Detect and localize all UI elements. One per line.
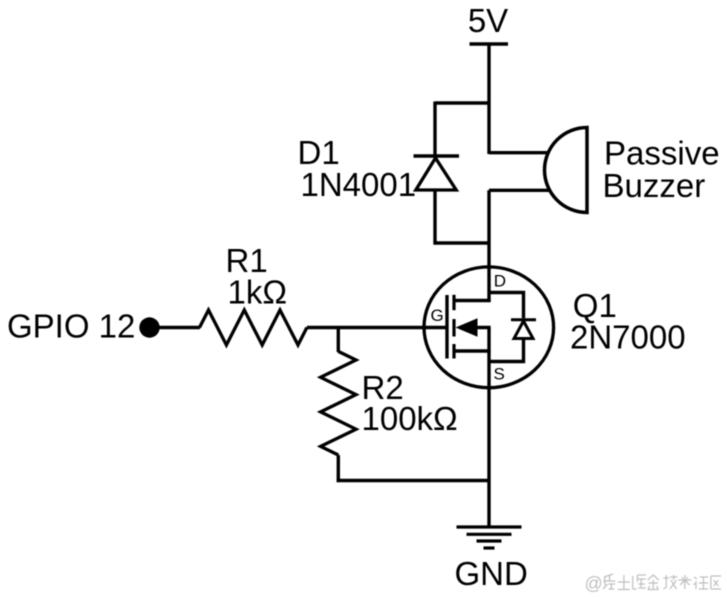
glyph jin <box>648 575 659 590</box>
body diode triangle <box>514 321 533 339</box>
mosfet drain connect <box>454 299 491 302</box>
resistor R2 <box>321 351 356 455</box>
svg-text:S: S <box>494 365 505 384</box>
wire diode branch lower <box>433 190 436 245</box>
mosfet source connect <box>454 349 491 352</box>
glyph ji <box>663 575 677 589</box>
glyph tu <box>618 575 630 590</box>
mosfet arrow wire <box>474 326 491 329</box>
svg-text:5V: 5V <box>468 2 508 39</box>
diode D1 cathode bar <box>414 154 460 158</box>
svg-text:2N7000: 2N7000 <box>570 319 686 356</box>
svg-text:GND: GND <box>455 555 528 592</box>
ground bar 4 <box>484 546 495 549</box>
wire R2 bottom lead <box>337 455 340 482</box>
mosfet channel segment bottom <box>452 344 455 359</box>
mosfet channel segment top <box>452 295 455 310</box>
body diode branch bottom <box>489 339 524 362</box>
wire source down to ground <box>487 328 490 528</box>
wire diode loop top <box>435 101 489 104</box>
svg-text:D: D <box>494 272 506 291</box>
svg-text:G: G <box>431 306 444 325</box>
svg-text:1kΩ: 1kΩ <box>228 274 288 311</box>
glyph jue <box>633 575 646 589</box>
wire buzzer upper lead <box>489 151 549 154</box>
body diode branch top <box>489 293 524 319</box>
ground bar 3 <box>477 539 502 542</box>
glyph qu <box>711 576 721 589</box>
svg-text:GPIO 12: GPIO 12 <box>7 308 135 345</box>
wire R2 to source <box>337 479 489 482</box>
svg-text:Passive: Passive <box>604 135 720 172</box>
mosfet Q1 body circle <box>424 267 554 388</box>
glyph xi <box>603 574 615 589</box>
wire buzzer to drain <box>487 190 490 302</box>
glyph shu <box>678 575 691 589</box>
GPIO terminal dot <box>139 317 159 337</box>
mosfet gate plate <box>445 295 448 359</box>
diode D1 triangle <box>416 158 456 190</box>
wire R2 top lead <box>337 328 340 353</box>
ground bar 2 <box>467 533 512 536</box>
wire GPIO to R1 <box>157 326 200 329</box>
wire R1 to gate <box>307 326 447 329</box>
svg-text:100kΩ: 100kΩ <box>362 400 458 437</box>
wire diode branch upper <box>433 102 436 158</box>
wire diode loop bottom <box>435 241 489 244</box>
mosfet body arrow <box>456 318 478 336</box>
resistor R1 <box>200 310 307 345</box>
body diode cathode bar <box>511 318 536 321</box>
wire 5V down to buzzer upper <box>487 44 490 154</box>
svg-text:1N4001: 1N4001 <box>301 166 417 203</box>
buzzer body <box>545 128 588 213</box>
ground bar 1 <box>457 525 522 528</box>
svg-text:@: @ <box>585 574 603 594</box>
glyph she <box>693 577 708 589</box>
wire buzzer lower lead <box>489 189 549 192</box>
power rail 5V bar <box>470 42 509 46</box>
mosfet channel segment middle <box>452 319 455 337</box>
svg-text:Buzzer: Buzzer <box>603 167 706 204</box>
